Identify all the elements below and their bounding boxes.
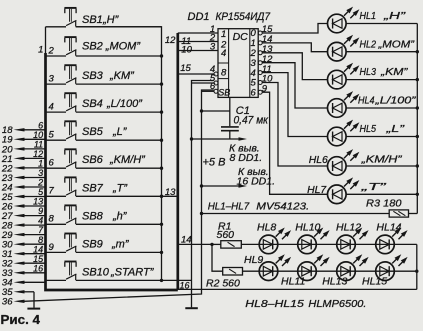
- svg-text:15: 15: [180, 63, 191, 74]
- svg-text:HL13: HL13: [322, 276, 347, 288]
- +5V net riser with label (wire from pin 36): [24, 90, 225, 301]
- LED HL9: [244, 254, 291, 281]
- svg-text:16 DD1.: 16 DD1.: [237, 176, 276, 188]
- LED HL1: [328, 7, 418, 33]
- connector pin 26 with arrow and wire: [1, 197, 46, 213]
- wire: IC pin 5 to GND riser: [192, 73, 216, 84]
- svg-text:SB1: SB1: [82, 14, 103, 26]
- connector pin 22 with arrow and wire: [1, 159, 46, 175]
- connector pin 27 with arrow and wire: [1, 206, 46, 222]
- svg-text:8: 8: [38, 235, 43, 245]
- svg-text:HL12: HL12: [336, 221, 361, 233]
- resistor R3 180: [200, 197, 417, 217]
- wire: IC output 0 (pin 15) to HL1: [262, 24, 328, 36]
- LED HL3: [328, 63, 419, 89]
- svg-text:MV54123.: MV54123.: [256, 200, 309, 212]
- connector pin 31 with arrow and wire: [2, 244, 46, 260]
- pushbutton switch SB8 „h”: [46, 205, 164, 226]
- svg-text:3: 3: [49, 74, 55, 85]
- pushbutton switch SB6 „KM/H”: [46, 149, 164, 170]
- wire: IC pin 6 to +5V riser: [202, 81, 216, 92]
- resistor R2 560: [206, 268, 243, 290]
- connector pin 18 with arrow and wire: [2, 120, 46, 136]
- svg-text:SB2: SB2: [82, 40, 103, 52]
- wire: HL8 row anode line: [241, 243, 416, 245]
- LED HL12: [336, 221, 369, 253]
- svg-text:„m”: „m”: [111, 238, 130, 250]
- bus group line (thick): left vertical, bottom, right vertical: [46, 33, 178, 290]
- wire: IC output 2 (pin 13) to HL3: [262, 44, 328, 80]
- svg-text:„L”: „L”: [385, 123, 405, 135]
- LED HL7: [307, 177, 419, 203]
- GND riser from IC pin 5 down to ground: [192, 81, 214, 308]
- wire: IC output 4 (pin 11) to HL5: [262, 64, 328, 137]
- svg-text:„L”: „L”: [112, 126, 128, 138]
- connector pin 20 with arrow and wire: [1, 140, 46, 156]
- connector pin 33 with arrow and wire: [2, 263, 46, 279]
- svg-text:8 DD1.: 8 DD1.: [230, 152, 263, 164]
- svg-text:3: 3: [38, 168, 43, 178]
- svg-text:HL3: HL3: [360, 66, 377, 78]
- svg-text:15: 15: [33, 254, 44, 264]
- svg-text:6: 6: [38, 120, 43, 130]
- wire: IC output 5 (pin 10) to HL6: [262, 74, 328, 166]
- op-amp style IC DD1 КР1554ИД7 decoder box: [214, 28, 262, 98]
- svg-text:5: 5: [49, 130, 55, 141]
- svg-text:0,47 мк: 0,47 мк: [234, 115, 269, 127]
- svg-text:SB5: SB5: [82, 126, 104, 138]
- connector pin 32 with arrow and wire: [2, 254, 46, 270]
- svg-text:HL9: HL9: [244, 254, 263, 266]
- svg-text:1: 1: [38, 45, 43, 56]
- LED HL8: [257, 221, 291, 253]
- wire: HL9 row anode line: [243, 270, 417, 272]
- svg-text:HL11: HL11: [281, 276, 305, 288]
- svg-text:10: 10: [181, 44, 192, 55]
- part note HL1-HL7 MV54123: [208, 200, 310, 212]
- common switch line (node): SB1 row right then down to GND join: [76, 27, 192, 281]
- svg-text:Рис. 4: Рис. 4: [1, 312, 41, 327]
- LED HL6: [309, 149, 419, 175]
- connector pin 35 with arrow and wire: [2, 287, 34, 298]
- svg-text:6: 6: [49, 158, 55, 169]
- connector pin 36 with arrow and wire: [2, 297, 25, 308]
- svg-text:„START”: „START”: [110, 266, 155, 278]
- svg-text:HL5: HL5: [360, 123, 377, 135]
- svg-text:„MOM”: „MOM”: [105, 40, 142, 52]
- svg-text:12: 12: [33, 149, 43, 159]
- svg-text:1: 1: [38, 159, 43, 169]
- LED HL5: [328, 120, 419, 146]
- pushbutton switch SB4 „L/100”: [46, 93, 164, 114]
- svg-text:„L/100”: „L/100”: [374, 95, 416, 107]
- svg-text:3: 3: [210, 41, 216, 52]
- connector pin 23 with arrow and wire: [1, 168, 46, 184]
- pushbutton switch SB1 „H”: [46, 8, 162, 27]
- svg-text:4: 4: [49, 102, 54, 113]
- svg-text:КР1554ИД7: КР1554ИД7: [216, 11, 271, 23]
- figure caption Рис. 4: [1, 312, 41, 327]
- svg-text:„T”: „T”: [112, 182, 128, 194]
- svg-text:16: 16: [33, 263, 43, 273]
- svg-text:8: 8: [49, 214, 55, 225]
- svg-text:HL1–HL7: HL1–HL7: [208, 200, 251, 212]
- connector pin 34 with arrow and wire: [2, 278, 46, 289]
- pushbutton switch SB7 „T”: [46, 177, 164, 198]
- svg-text:HL10: HL10: [295, 221, 320, 233]
- svg-text:4: 4: [221, 48, 226, 59]
- branch: +5V to IC pin 16 (arrow): [200, 166, 275, 188]
- svg-text:11: 11: [34, 140, 43, 150]
- LED HL13: [322, 254, 368, 287]
- pushbutton switch SB2 „MOM”: [46, 37, 164, 58]
- pushbutton switch SB9 „m”: [46, 234, 164, 255]
- svg-text:„H”: „H”: [102, 14, 120, 26]
- LED HL14: [376, 221, 408, 253]
- wire: IC output 1 (pin 14) to HL2: [262, 34, 328, 52]
- wire 11: bus to IC pin 2: [178, 32, 218, 47]
- svg-text:36: 36: [2, 297, 13, 308]
- svg-text:SB4: SB4: [82, 98, 103, 110]
- svg-text:HL6: HL6: [309, 154, 328, 166]
- svg-text:SB10: SB10: [82, 266, 110, 278]
- svg-text:13: 13: [165, 187, 176, 198]
- svg-text:7: 7: [49, 186, 55, 197]
- svg-text:8: 8: [221, 67, 227, 78]
- connector pin 19 with arrow and wire: [2, 130, 46, 146]
- LED HL4: [328, 91, 419, 117]
- LED HL2: [328, 35, 419, 61]
- connector pin 28 with arrow and wire: [1, 216, 46, 232]
- svg-text:4: 4: [38, 216, 43, 226]
- svg-text:14: 14: [33, 244, 43, 254]
- connector pin 30 with arrow and wire: [2, 235, 46, 251]
- LED HL15: [362, 254, 408, 287]
- ground symbol (left, pin 35): [27, 292, 40, 309]
- connector pin 24 with arrow and wire: [1, 178, 46, 194]
- svg-text:SB6: SB6: [82, 154, 104, 166]
- LED HL11: [281, 254, 330, 287]
- svg-text:HL8–HL15: HL8–HL15: [245, 298, 304, 310]
- connector pin 29 with arrow and wire: [1, 225, 46, 241]
- svg-text:HL7: HL7: [307, 184, 327, 196]
- svg-text:„MOM”: „MOM”: [377, 38, 414, 50]
- wire 14: bus to R1 junction: [178, 234, 214, 246]
- branch: GND wire to IC pin 8 (arrow): [190, 137, 262, 164]
- IC header label DD1 КР1554ИД7: [188, 11, 271, 23]
- pushbutton switch SB5 „L”: [46, 121, 164, 142]
- svg-text:+5 В: +5 В: [203, 156, 226, 168]
- svg-text:10: 10: [33, 130, 43, 140]
- riser to R2: [212, 244, 223, 271]
- svg-text:HL14: HL14: [376, 221, 401, 233]
- svg-text:HLMP6500.: HLMP6500.: [308, 298, 366, 310]
- resistor R1 560: [212, 220, 241, 248]
- pushbutton switch SB10 „START”: [46, 262, 164, 283]
- svg-text:HL8: HL8: [257, 221, 276, 233]
- svg-text:HL1: HL1: [360, 10, 377, 22]
- svg-text:„KM/H”: „KM/H”: [109, 154, 146, 166]
- part note HL8-HL15 HLMP6500: [245, 298, 366, 310]
- svg-text:13: 13: [33, 197, 43, 207]
- wire 16: bus bottom corner to LED return rail: [178, 280, 417, 290]
- wire 15: bus to IC pin 4: [178, 63, 215, 75]
- wire 10: bus to IC pin 3: [178, 41, 218, 55]
- LED HL10: [295, 221, 329, 253]
- svg-text:„KM/H”: „KM/H”: [360, 154, 402, 166]
- return rail right side (net 16): [415, 244, 418, 289]
- wire 13: common line junction to bus: [160, 187, 178, 198]
- pushbutton switch SB3 „KM”: [46, 65, 164, 86]
- cathode rail for HL1-HL7: [416, 24, 418, 214]
- svg-text:HL15: HL15: [362, 276, 387, 288]
- svg-text:„KM”: „KM”: [380, 66, 408, 78]
- svg-text:9: 9: [262, 83, 268, 94]
- capacitor C1 0,47 мк: [200, 97, 269, 139]
- svg-text:„T”: „T”: [360, 181, 387, 193]
- svg-text:SB: SB: [218, 88, 230, 98]
- svg-text:2: 2: [48, 45, 55, 56]
- wire: IC output 3 (pin 12) to HL4: [262, 54, 328, 108]
- svg-text:2: 2: [37, 178, 43, 188]
- svg-text:1: 1: [221, 29, 226, 40]
- wire 12: bus top to IC pin 1: [165, 24, 218, 46]
- svg-text:SB3: SB3: [82, 70, 104, 82]
- svg-text:DC: DC: [233, 31, 249, 43]
- wire 1: SB1 down into bus top, labels 1 and 2: [38, 27, 45, 56]
- svg-text:9: 9: [38, 206, 43, 216]
- svg-text:„L/100”: „L/100”: [106, 98, 143, 110]
- svg-text:6: 6: [251, 87, 257, 98]
- svg-text:„H”: „H”: [383, 10, 406, 22]
- svg-text:560: 560: [217, 229, 235, 241]
- ground symbol (right): [185, 307, 198, 309]
- svg-text:R2 560: R2 560: [206, 278, 240, 290]
- svg-text:16: 16: [180, 280, 190, 290]
- connector pin 21 with arrow and wire: [1, 149, 46, 165]
- svg-text:12: 12: [165, 35, 176, 46]
- svg-text:„KM”: „KM”: [109, 70, 135, 82]
- svg-text:9: 9: [49, 242, 55, 253]
- svg-text:HL4: HL4: [358, 95, 375, 107]
- svg-text:SB9: SB9: [82, 238, 103, 250]
- svg-text:SB7: SB7: [82, 182, 104, 194]
- svg-text:HL2: HL2: [360, 38, 377, 50]
- wire: IC output 6 (pin 9) to HL7: [262, 83, 328, 194]
- svg-text:R3 180: R3 180: [366, 197, 402, 209]
- svg-text:14: 14: [181, 234, 192, 245]
- svg-text:DD1: DD1: [188, 11, 210, 23]
- svg-text:„h”: „h”: [112, 210, 128, 222]
- svg-text:SB8: SB8: [82, 210, 104, 222]
- connector pin 25 with arrow and wire: [1, 187, 46, 203]
